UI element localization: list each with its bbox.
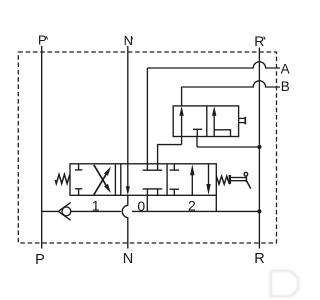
pilot valve V2 right position branch path	[214, 130, 230, 137]
wire R line vertical	[258, 48, 260, 249]
spring right	[216, 176, 230, 184]
wire A line horizontal with hop over R line	[147, 62, 280, 68]
check valve seat	[58, 203, 70, 221]
main valve position 1 crossover arrow down	[94, 165, 107, 187]
svg-text:P: P	[35, 252, 45, 268]
svg-text:N: N	[123, 251, 133, 267]
wire pilot drain to R line (L2)	[197, 146, 259, 148]
wire drain line middle segment	[71, 210, 121, 212]
wire link pilot valve to main valve (L1)	[158, 145, 182, 164]
svg-text:B: B	[281, 79, 290, 94]
wire N line below valve with hop over drain line	[122, 195, 128, 248]
junction dot drain on R line	[257, 209, 261, 213]
wire B line riser	[181, 87, 183, 106]
wire N' line vertical (top to valve)	[127, 46, 129, 164]
svg-text:P: P	[38, 33, 47, 48]
svg-text:R: R	[254, 251, 264, 267]
wire A line riser	[146, 68, 148, 164]
pilot valve V2 left position blocked port T	[196, 129, 198, 136]
pilot valve V2 body	[173, 106, 238, 137]
svg-text:R: R	[254, 33, 264, 49]
svg-text:A: A	[281, 61, 290, 76]
main valve position 0 blocked ports top	[146, 164, 148, 170]
pilot valve V2 left position flow arrow	[181, 114, 183, 137]
wire pilot valve bottom left port riser	[181, 137, 183, 145]
main valve position 1 crossover arrow up	[94, 173, 107, 195]
main valve divider transition|0	[120, 164, 122, 196]
main valve position 2 flow arrow up	[191, 172, 193, 195]
main valve position 2 blocked port T top	[173, 164, 175, 170]
main valve divider 1|transition	[114, 164, 116, 196]
main valve V1 body	[70, 164, 216, 196]
main valve position 1 blocked port T top	[78, 164, 80, 170]
main valve position 2 flow arrow down	[208, 164, 210, 187]
junction dot L2 on R line	[257, 145, 261, 149]
svg-text:N: N	[124, 33, 133, 48]
main valve divider 0|2	[166, 164, 168, 196]
wire P line vertical	[41, 46, 43, 249]
wire pilot valve drain riser	[196, 137, 198, 148]
lever actuator	[229, 175, 231, 184]
wire drain line left segment (from P line)	[42, 210, 59, 212]
main valve position 2 blocked port T bottom	[173, 189, 175, 195]
watermark	[271, 271, 298, 296]
main valve position 1 blocked port T bottom	[78, 189, 80, 196]
pilot valve V2 position divider	[206, 106, 208, 137]
main valve position 0 blocked ports bottom	[146, 189, 148, 195]
pilot valve V2 right position flow arrow	[213, 114, 215, 137]
spring left (return spring)	[55, 174, 70, 183]
dashed enclosure border	[18, 52, 276, 243]
wire riser valve port 0 to drain	[146, 195, 148, 211]
wire drain line right segment to R line	[132, 210, 259, 212]
wire riser valve corner to drain	[215, 195, 217, 211]
pilot valve V2 plunger actuator	[239, 117, 246, 119]
wire B line horizontal with hop over R line	[182, 81, 280, 87]
main valve position 0 through-flow arrow (N)	[127, 164, 129, 193]
check valve ball	[62, 207, 71, 216]
